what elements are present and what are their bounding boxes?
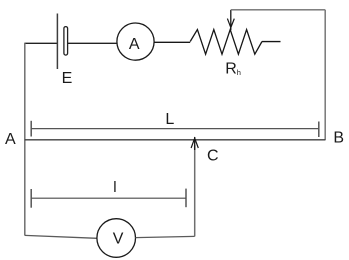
rheostat Rh zigzag [190,30,262,55]
wire ammeter to rheostat [154,41,190,43]
dimension l left tick [30,189,32,208]
svg-text:E: E [62,70,73,87]
jockey arrow tip shaft [194,137,196,150]
wire voltmeter to jockey bottom [136,236,195,237]
ammeter U: circle [117,23,154,60]
dimension L left tick [30,121,32,137]
svg-text:L: L [165,111,174,128]
dimension L right tick [318,122,320,138]
svg-text:l: l [113,179,116,196]
wire right vertical (corner to B) [324,10,326,140]
dimension l right tick [185,189,187,208]
jockey arrow shaft (from C down to voltmeter wire) [194,145,196,236]
svg-text:A: A [129,36,140,53]
rheostat right lead (open end) [262,41,281,43]
wire wiper to top-right corner [231,9,325,11]
wire battery to ammeter [68,42,117,44]
dimension line L [31,128,319,130]
svg-text:B: B [333,129,344,146]
svg-text:C: C [207,147,219,164]
battery E short plate [64,27,68,55]
potentiometer wire AB [25,139,325,141]
rheostat wiper arrowhead [227,19,234,28]
voltmeter circle [97,219,136,258]
svg-text:A: A [5,131,16,148]
svg-text:V: V [113,231,124,248]
wire top-left horizontal (node to battery) [25,42,58,44]
rheostat wiper arrow shaft [230,10,232,30]
wire left vertical (top corner down past A) [24,43,26,236]
wire bottom-left (left vertical to voltmeter) [25,235,97,238]
dimension line l [31,197,186,199]
battery E long plate [56,14,58,70]
jockey arrowhead at C [191,138,198,148]
